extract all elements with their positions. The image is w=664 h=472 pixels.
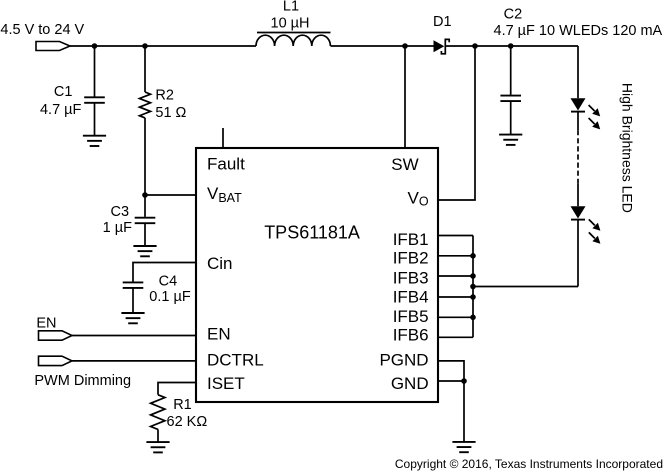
diode D1 (schottky) xyxy=(434,39,450,53)
svg-text:EN: EN xyxy=(36,316,56,332)
svg-text:R2: R2 xyxy=(155,88,174,104)
svg-text:0.1 µF: 0.1 µF xyxy=(149,289,191,305)
wire C1 lower lead xyxy=(94,103,96,136)
ground R1 xyxy=(146,442,169,452)
ground C3 xyxy=(133,246,156,256)
wire diode to LED branch xyxy=(446,45,578,47)
svg-text:62 KΩ: 62 KΩ xyxy=(167,414,208,430)
wire IFB3 stub xyxy=(439,275,473,277)
wire DCTRL xyxy=(72,360,196,362)
wire IFB5 stub xyxy=(439,316,473,318)
capacitor C3 xyxy=(135,218,156,224)
node VIN input terminal xyxy=(36,42,70,51)
svg-text:IFB5: IFB5 xyxy=(393,307,429,326)
svg-text:R1: R1 xyxy=(173,397,192,413)
svg-text:1 µF: 1 µF xyxy=(103,220,132,236)
svg-text:Cin: Cin xyxy=(207,254,233,273)
node junction LED return xyxy=(470,284,476,290)
node junction SW xyxy=(402,43,408,49)
resistor R2 xyxy=(140,92,151,118)
wire IFB1 stub xyxy=(439,235,473,237)
svg-text:C2: C2 xyxy=(504,6,523,22)
svg-text:4.5 V to 24 V: 4.5 V to 24 V xyxy=(0,22,84,38)
svg-text:IFB2: IFB2 xyxy=(393,249,429,268)
svg-text:IFB1: IFB1 xyxy=(393,230,429,249)
capacitor C2 xyxy=(500,96,521,102)
node junction VBAT/C3 xyxy=(142,192,148,198)
svg-text:4.7 µF: 4.7 µF xyxy=(40,102,82,118)
wire GND xyxy=(439,380,464,382)
svg-text:High Brightness LED: High Brightness LED xyxy=(620,83,636,213)
node junction C2 xyxy=(508,43,514,49)
svg-text:IFB4: IFB4 xyxy=(393,288,429,307)
svg-text:C3: C3 xyxy=(111,204,130,220)
wire ISET to R1 xyxy=(158,383,196,395)
capacitor C4 xyxy=(123,282,144,288)
svg-text:10 µH: 10 µH xyxy=(271,16,310,32)
inductor L1 xyxy=(256,33,331,47)
wire IFB6 stub xyxy=(439,336,473,338)
ground C4 xyxy=(121,313,144,323)
wire IFB bus xyxy=(472,236,474,338)
wire LED dashed (more LEDs) xyxy=(577,130,579,184)
wire Cin xyxy=(133,263,196,282)
resistor R1 xyxy=(151,395,165,430)
svg-text:GND: GND xyxy=(391,374,429,393)
node junction IFB5 xyxy=(470,315,476,321)
ground GND xyxy=(452,442,475,452)
svg-text:Fault: Fault xyxy=(207,154,245,173)
wire C2 upper lead xyxy=(510,46,512,95)
node junction IFB2 xyxy=(470,253,476,259)
wire PGND xyxy=(439,361,464,381)
wire GND lower lead xyxy=(463,381,465,442)
svg-text:4.7 µF 10 WLEDs 120 mA: 4.7 µF 10 WLEDs 120 mA xyxy=(494,23,663,39)
LED D3 bottom xyxy=(571,206,601,286)
wire SW xyxy=(404,46,406,148)
wire Fault stub xyxy=(222,128,224,148)
svg-text:PWM Dimming: PWM Dimming xyxy=(34,373,131,389)
wire LED2 upper lead xyxy=(577,184,579,206)
wire VBAT xyxy=(145,194,196,196)
wire R2 upper lead xyxy=(144,46,146,92)
svg-text:C4: C4 xyxy=(159,273,178,289)
wire VO xyxy=(439,46,475,200)
svg-text:EN: EN xyxy=(207,325,231,344)
wire top rail input to inductor xyxy=(70,45,256,47)
wire R2 lower lead to VBAT node xyxy=(144,118,146,195)
svg-text:IFB3: IFB3 xyxy=(393,269,429,288)
svg-text:Copyright © 2016, Texas Instru: Copyright © 2016, Texas Instruments Inco… xyxy=(395,457,663,471)
wire C3 upper lead xyxy=(144,195,146,217)
LED D2 top xyxy=(571,98,601,130)
node junction R2 xyxy=(142,43,148,49)
wire inductor to diode xyxy=(331,45,434,47)
svg-text:D1: D1 xyxy=(433,14,452,30)
svg-text:C1: C1 xyxy=(54,84,73,100)
svg-text:51 Ω: 51 Ω xyxy=(155,105,186,121)
wire R1 lower lead xyxy=(157,429,159,442)
ground C1 xyxy=(83,136,106,146)
wire IFB4 stub xyxy=(439,296,473,298)
wire LED return xyxy=(473,286,578,288)
wire EN xyxy=(72,335,196,337)
wire C3 lower lead xyxy=(144,223,146,246)
svg-text:TPS61181A: TPS61181A xyxy=(264,222,360,242)
ground C2 xyxy=(499,135,522,145)
wire C2 lower lead xyxy=(510,101,512,135)
op-amp U1 : IC TPS61181A body xyxy=(196,148,438,402)
svg-text:SW: SW xyxy=(391,155,418,174)
wire C4 lower lead xyxy=(132,288,134,313)
capacitor C1 xyxy=(84,97,105,103)
node junction GND xyxy=(461,378,467,384)
svg-text:IFB6: IFB6 xyxy=(393,326,429,345)
wire C1 upper lead xyxy=(94,46,96,97)
node EN input terminal xyxy=(39,331,73,340)
svg-text:PGND: PGND xyxy=(379,351,428,370)
svg-text:ISET: ISET xyxy=(207,374,245,393)
node junction VO xyxy=(472,43,478,49)
wire IFB2 stub xyxy=(439,255,473,257)
node junction IFB4 xyxy=(470,294,476,300)
node junction IFB3 xyxy=(470,273,476,279)
svg-text:L1: L1 xyxy=(283,0,299,14)
node junction C1 xyxy=(92,43,98,49)
svg-text:DCTRL: DCTRL xyxy=(207,351,264,370)
node DCTRL input terminal xyxy=(39,356,73,365)
wire LED string top xyxy=(577,46,579,98)
